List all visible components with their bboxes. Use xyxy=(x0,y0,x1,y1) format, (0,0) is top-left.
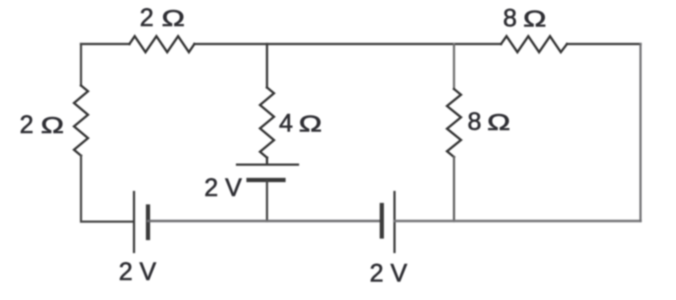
battery V1 long plate (positive) xyxy=(133,192,135,252)
svg-text:2: 2 xyxy=(20,111,34,139)
wire: R3 tail to battery V2 xyxy=(266,158,268,164)
label R3 value 4 ohm xyxy=(279,110,322,138)
label R5 value 8 ohm xyxy=(468,108,511,136)
battery V2 short thick plate (negative, horizontal) xyxy=(249,178,284,182)
svg-text:2 V: 2 V xyxy=(370,260,408,288)
battery V3 long plate (positive) xyxy=(393,192,395,252)
svg-text:Ω: Ω xyxy=(162,5,185,31)
label R2 value 2 ohm xyxy=(20,111,64,139)
battery V1 short thick plate (negative) xyxy=(146,207,150,239)
battery V3 short thick plate (negative) xyxy=(380,205,384,237)
battery V2 long plate (positive, horizontal) xyxy=(237,164,298,166)
svg-text:Ω: Ω xyxy=(299,110,322,136)
svg-text:4: 4 xyxy=(279,110,293,138)
svg-text:8: 8 xyxy=(468,108,482,136)
resistor R4 8ohm (top-right horizontal) xyxy=(501,36,567,52)
svg-text:Ω: Ω xyxy=(523,5,546,31)
resistor R1 2ohm (top-left horizontal) xyxy=(129,36,194,52)
wire: right-middle branch upper (top wire down to R5) xyxy=(453,44,455,89)
label R1 value 2 ohm xyxy=(140,4,185,32)
svg-text:Ω: Ω xyxy=(487,109,510,135)
wire: middle branch upper (top wire down to R3) xyxy=(266,44,268,88)
resistor R2 2ohm (left vertical) xyxy=(74,86,88,156)
wire: top horizontal (node A to node D) xyxy=(81,43,641,45)
svg-text:Ω: Ω xyxy=(41,112,64,138)
wire: right vertical (node D down to node E) xyxy=(639,44,641,221)
svg-text:2 V: 2 V xyxy=(119,258,157,286)
svg-text:2: 2 xyxy=(140,4,154,32)
wire: battery V2 down to bottom wire xyxy=(266,181,268,221)
label R4 value 8 ohm xyxy=(503,4,546,32)
wire: bottom left-middle (battery V1 to battery V3) xyxy=(148,220,382,222)
wire: left branch lower + bottom-left segment to battery V1 xyxy=(81,156,133,222)
wire: R5 lower down to bottom wire xyxy=(453,157,455,221)
resistor R3 4ohm (middle vertical) xyxy=(260,88,274,158)
svg-text:8: 8 xyxy=(503,4,517,32)
wire: bottom right segment (battery V3 to node E) xyxy=(395,220,641,222)
resistor R5 8ohm (right vertical) xyxy=(447,89,461,157)
wire: left branch upper (node A down to R2) xyxy=(80,44,82,86)
svg-text:2 V: 2 V xyxy=(204,174,242,202)
